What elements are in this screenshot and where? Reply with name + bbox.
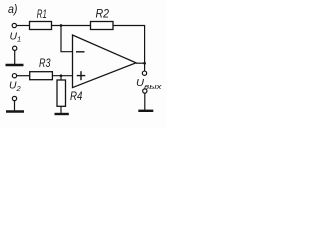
plus sign non-inverting input [77,75,86,77]
op-amp U1 triangle [73,35,137,88]
svg-text:R1: R1 [37,9,47,21]
terminal U2 ground side [12,96,16,100]
svg-text:R2: R2 [96,9,110,21]
wire U2 to R3 [17,75,30,77]
svg-text:R3: R3 [39,58,51,70]
wire R4 to ground [60,106,62,113]
label R3 [39,58,51,70]
terminal U1 ground side [13,46,17,50]
wire to output ground [144,93,146,110]
svg-text:а): а) [8,4,18,16]
resistor R2 [91,22,114,30]
svg-text:1: 1 [17,35,21,44]
node B junction dot [60,74,63,77]
terminal output ground side [143,89,147,93]
resistor R1 [30,22,52,30]
minus sign inverting input [76,51,85,53]
resistor R4 [57,80,66,106]
ground R4 [55,113,69,115]
wire U1 to R1 [17,25,30,27]
label R1 [37,9,47,21]
node output junction dot [143,62,146,65]
svg-text:2: 2 [16,84,22,93]
wire R1 to R2 [52,25,91,27]
resistor R3 [30,72,53,80]
wire node B down to R4 [60,76,62,80]
svg-text:R4: R4 [70,91,82,103]
ground output [138,110,153,112]
wire to U2 ground [14,101,16,111]
label a) [8,4,18,16]
terminal U2 input [12,74,16,78]
node A junction dot [60,24,63,27]
label R2 [96,9,110,21]
wire op-amp output [136,62,145,64]
terminal U1 input [12,23,16,27]
ground U2 [6,110,24,112]
label U2 [9,80,22,94]
terminal output [142,71,146,75]
label U1 [10,31,22,44]
wire to U1 ground [14,51,16,64]
label Uout [136,77,162,91]
wire R2 to feedback corner [113,26,145,64]
label R4 [70,91,82,103]
ground U1 [6,64,24,66]
wire R3 to non-inverting input [52,75,72,77]
wire node A down to inverting input [61,26,73,52]
wire junction to output terminal [144,63,146,71]
